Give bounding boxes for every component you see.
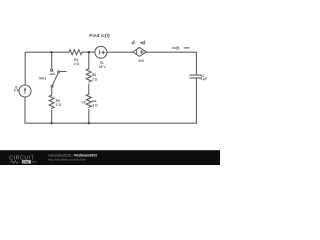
svg-text:1 μF: 1 μF (200, 77, 207, 81)
svg-text:LAB: LAB (23, 160, 30, 164)
svg-text:4 Ω: 4 Ω (92, 103, 98, 107)
wire R4 to bottom (88, 110, 90, 124)
svg-text:4 Ω: 4 Ω (74, 62, 80, 66)
node: bottom wire / R3 branch junction (50, 122, 52, 124)
wire switch to R3 (51, 87, 53, 95)
switch branch wire (51, 52, 53, 69)
svg-text:Vδ: Vδ (82, 101, 86, 105)
diamond polarity annotation (132, 41, 145, 44)
svg-text:Find ic(t): Find ic(t) (89, 33, 110, 38)
R5 R4 branch wire top (88, 52, 90, 69)
wire R3 to bottom (51, 110, 53, 123)
svg-text:6 A: 6 A (14, 89, 20, 93)
svg-text:ic(t): ic(t) (172, 45, 180, 50)
resistor R2 (69, 50, 82, 55)
wire V1 to dependent source (107, 51, 133, 53)
watermark bar (0, 150, 220, 165)
switch actuation arrow head (49, 74, 51, 76)
ic(t) arrow (184, 47, 190, 49)
wire top left segment (25, 51, 69, 53)
capacitor C1 (190, 75, 202, 78)
dependent source 4Vx (diamond) (133, 47, 146, 56)
switch SW1 (51, 69, 53, 71)
labels (14, 58, 207, 107)
svg-text:SW1: SW1 (39, 77, 46, 81)
current source I3 arrow (24, 87, 27, 94)
svg-text:36 V: 36 V (99, 65, 107, 69)
CircuitLab logo (9, 156, 36, 164)
left wire lower (24, 97, 26, 123)
resistor R3 (49, 95, 54, 108)
wire between R5 and R4 (88, 84, 90, 94)
current source I3 (19, 85, 31, 97)
svg-text:http://circuitlab.com/c6c3uah: http://circuitlab.com/c6c3uah (48, 158, 86, 162)
voltage source V1 (95, 46, 107, 58)
resistor R5 (86, 69, 91, 82)
right wire lower (195, 78, 197, 123)
node: top wire / SW1 branch junction (50, 51, 52, 53)
resistor R4 (86, 94, 91, 107)
svg-text:4Vδ: 4Vδ (138, 59, 144, 63)
left wire upper (24, 52, 26, 85)
svg-text:2 Ω: 2 Ω (56, 103, 62, 107)
right wire upper (195, 52, 197, 75)
wire R2 to V1 (82, 51, 95, 53)
wire diamond to top right corner (146, 51, 196, 53)
node: top wire / R5 branch junction (88, 51, 90, 53)
junction node dots (50, 51, 90, 124)
svg-text:2 Ω: 2 Ω (92, 77, 98, 81)
node: bottom wire / R4 branch junction (88, 122, 90, 124)
bottom wire (25, 122, 196, 124)
